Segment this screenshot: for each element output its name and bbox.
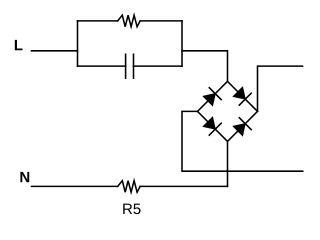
wire bridge side bottom-left [198,111,228,141]
wire bridge side bottom-right [228,111,258,141]
wire parallel-box right vertical [181,21,183,66]
diode D4 (bottom vertex to right vertex) [233,118,251,136]
wire N lead [32,185,118,187]
wire bottom branch left segment [78,65,126,67]
wire bridge left vertex to negative output [182,111,303,171]
wire bottom branch right segment [134,65,183,67]
wire bridge bottom vertex down to N line [227,141,229,186]
wire L lead [32,50,78,52]
capacitor (bottom branch of parallel pair) [126,54,134,78]
wire parallel-box left vertical [77,21,79,66]
label R5 value [123,204,140,214]
diode D3 (left vertex to bottom vertex) [203,117,221,135]
wire top branch left segment [78,20,118,22]
resistor (top branch of parallel pair) [118,15,140,27]
wire from box to bridge top [182,51,228,82]
resistor R5 [118,181,140,193]
node N [20,172,29,182]
wire bridge side top-right [228,81,258,111]
wire bridge right vertex to positive output [258,66,303,111]
diode D2 (top vertex to right vertex) [233,87,251,105]
wire bridge side top-left [198,81,228,111]
node L [15,40,23,50]
wire top branch right segment [140,20,182,22]
diode D1 (left vertex to top vertex) [203,88,221,106]
wire R5 to bridge bottom [140,185,227,187]
